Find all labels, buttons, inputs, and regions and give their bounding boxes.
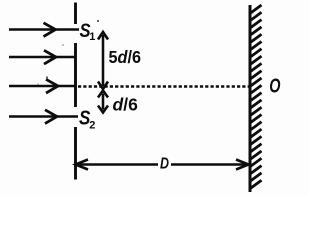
svg-text:1: 1	[89, 31, 95, 43]
svg-text:2: 2	[89, 120, 95, 132]
svg-text:5d/6: 5d/6	[109, 48, 142, 68]
svg-text:d/6: d/6	[113, 95, 139, 115]
svg-text:D: D	[160, 155, 169, 173]
svg-text:O: O	[269, 74, 281, 97]
